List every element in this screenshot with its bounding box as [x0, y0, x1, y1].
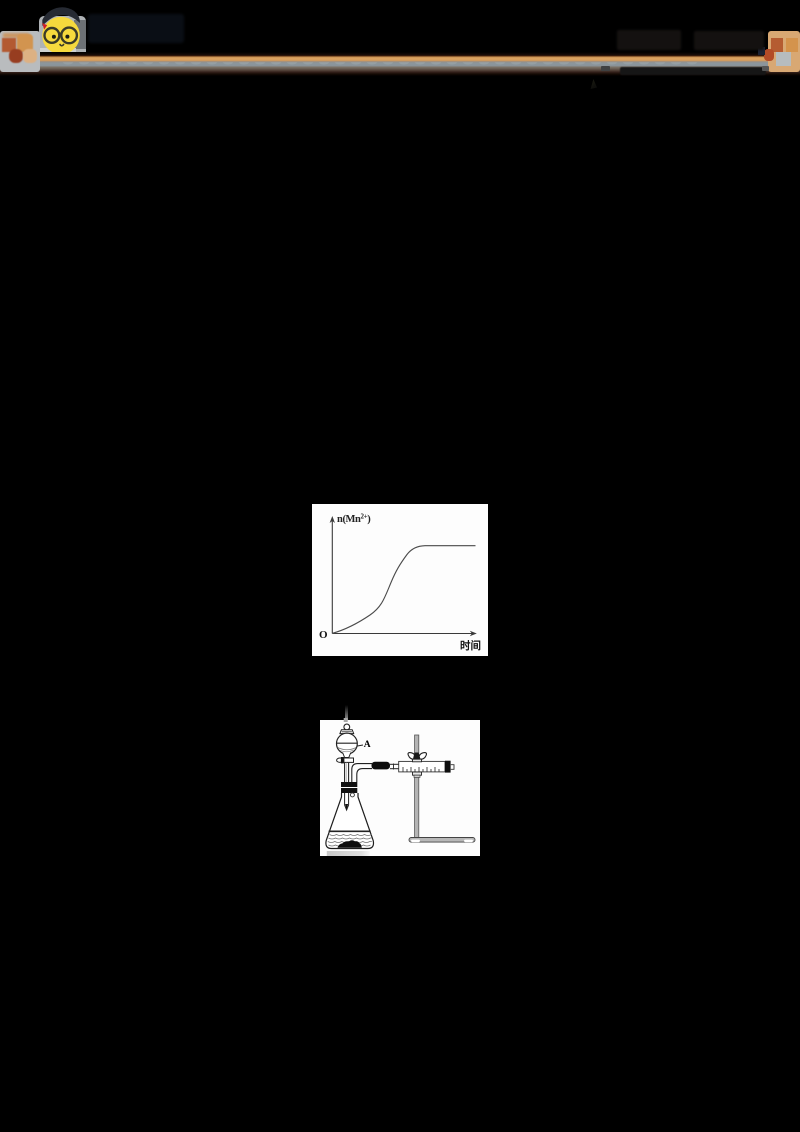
scallop shadow [60, 62, 700, 67]
top-right text blocks [617, 30, 681, 50]
bottom-right small text row [620, 67, 766, 75]
erlenmeyer flask with liquid and solid [326, 782, 374, 849]
dropping funnel A [337, 724, 371, 810]
emoji mascot sticker [36, 2, 90, 60]
svg-text:时间: 时间 [460, 639, 481, 652]
iron stand [409, 735, 475, 842]
divider band [0, 52, 800, 76]
left edge ornament [0, 31, 40, 72]
scan streak above apparatus [345, 705, 349, 720]
side delivery tube with rubber connector [352, 762, 399, 782]
syringe [399, 761, 454, 773]
clamp with wing nut [408, 753, 426, 778]
logo text block (dark navy) [88, 14, 184, 43]
svg-text:O: O [319, 629, 328, 641]
right edge ornament [768, 31, 800, 72]
tiny mark near (590,84) [589, 79, 597, 89]
svg-text:A: A [364, 740, 371, 750]
